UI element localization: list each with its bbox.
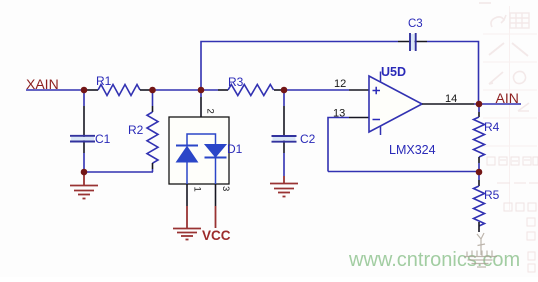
- diode D1b (to VCC): [205, 145, 227, 185]
- wire XAIN horizontal: [26, 89, 84, 91]
- svg-text:D1: D1: [227, 142, 243, 156]
- svg-text:C1: C1: [95, 132, 111, 146]
- VCC power port: [215, 206, 217, 228]
- wire R4 bottom to node F: [478, 157, 480, 163]
- wire node B down to R2: [152, 90, 154, 106]
- wire bottom C1 to R2: [84, 171, 153, 173]
- capacitor C2: [273, 137, 296, 141]
- faint toolbar grid: [483, 6, 537, 210]
- faint icon table: [510, 13, 529, 28]
- wire feedback top riser: [201, 42, 398, 91]
- svg-text:R2: R2: [128, 123, 144, 137]
- opamp pin 14: [422, 103, 474, 105]
- resistor R1: [98, 85, 140, 96]
- ground under C1: [70, 172, 98, 199]
- faint icon pencil: [489, 72, 503, 84]
- svg-text:XAIN: XAIN: [26, 76, 59, 92]
- capacitor C1 pins: [83, 106, 85, 153]
- D1 pin 3: [215, 184, 217, 206]
- wire AIN node down to R4: [478, 104, 480, 112]
- wire R3 right pin: [274, 89, 284, 91]
- junction node F: [476, 169, 483, 176]
- faint icon line2: [512, 43, 528, 56]
- svg-text:R1: R1: [96, 74, 112, 88]
- wire R2 bottom: [152, 163, 154, 169]
- faint top-left tiny text: [479, 2, 491, 4]
- ground under D1 pin1: [173, 206, 201, 240]
- D1 pin 1: [186, 184, 188, 206]
- D1 internal bridge: [187, 134, 216, 145]
- svg-text:LMX324: LMX324: [389, 143, 436, 157]
- opamp pin 13: [349, 117, 369, 119]
- opamp pin 12: [349, 89, 369, 91]
- junction node A: [81, 87, 88, 94]
- junction node D: [281, 87, 288, 94]
- svg-text:R3: R3: [228, 75, 244, 89]
- diode array D1 box: [169, 117, 229, 184]
- wire feedback bottom: [328, 171, 479, 173]
- wire node D to opamp pin12: [284, 89, 349, 91]
- svg-text:VCC: VCC: [202, 228, 231, 243]
- svg-text:R4: R4: [484, 120, 500, 134]
- junction node E (AIN): [476, 101, 483, 108]
- svg-text:12: 12: [334, 78, 346, 90]
- ground under C2: [270, 176, 298, 197]
- resistor R4: [474, 117, 485, 157]
- faint text row1: [487, 157, 538, 165]
- svg-text:3: 3: [220, 186, 231, 191]
- wire node A to R1 (pin): [84, 89, 98, 91]
- wire node D down to C2: [283, 90, 285, 106]
- resistor R2: [147, 112, 158, 163]
- earth sketch (faint grey logo): [464, 233, 497, 267]
- wire R5 bottom stub: [478, 222, 480, 232]
- faint text row2: [497, 182, 538, 184]
- faint icon corner-diagonal: [518, 103, 529, 111]
- faint icon line1: [489, 43, 504, 55]
- svg-text:1: 1: [192, 187, 203, 192]
- faint icon undo: [491, 15, 506, 27]
- wire C3 to AIN node: [427, 42, 479, 105]
- svg-text:R5: R5: [484, 188, 500, 202]
- wire node A down to C1: [83, 90, 85, 106]
- wire pin13 corner: [328, 118, 349, 172]
- diode D1a (to GND): [176, 146, 198, 185]
- op-amp U5D: [369, 76, 422, 132]
- svg-text:14: 14: [445, 93, 457, 105]
- resistor R5: [474, 186, 485, 226]
- svg-text:C2: C2: [300, 132, 316, 146]
- capacitor C1: [71, 137, 94, 141]
- D1 pin 2: [200, 97, 202, 134]
- faint right-edge marks: [527, 218, 535, 272]
- wire R1 to node B (pin): [140, 89, 152, 91]
- capacitor C2 pins: [283, 106, 285, 153]
- svg-text:C3: C3: [408, 18, 423, 30]
- faint text row3: [504, 203, 536, 211]
- junction node G: [81, 169, 88, 176]
- svg-text:AIN: AIN: [496, 90, 519, 106]
- resistor R3: [228, 85, 274, 96]
- wire node F down to R5: [478, 172, 480, 180]
- svg-text:www.cntronics.com: www.cntronics.com: [348, 249, 520, 271]
- wire node B to R3: [152, 89, 218, 91]
- wire output to AIN: [474, 103, 521, 105]
- svg-text:2: 2: [205, 109, 216, 114]
- faint icon blob: [513, 71, 525, 83]
- svg-text:U5D: U5D: [381, 65, 406, 79]
- wire node C down to D1: [200, 90, 202, 97]
- wire R3 left pin: [218, 89, 228, 91]
- junction node C: [198, 87, 205, 94]
- capacitor C3 pins: [398, 41, 427, 43]
- junction node B: [149, 87, 156, 94]
- wire C2 to ground: [283, 153, 285, 176]
- capacitor C3: [411, 34, 415, 50]
- wire C1 to ground node: [83, 153, 85, 172]
